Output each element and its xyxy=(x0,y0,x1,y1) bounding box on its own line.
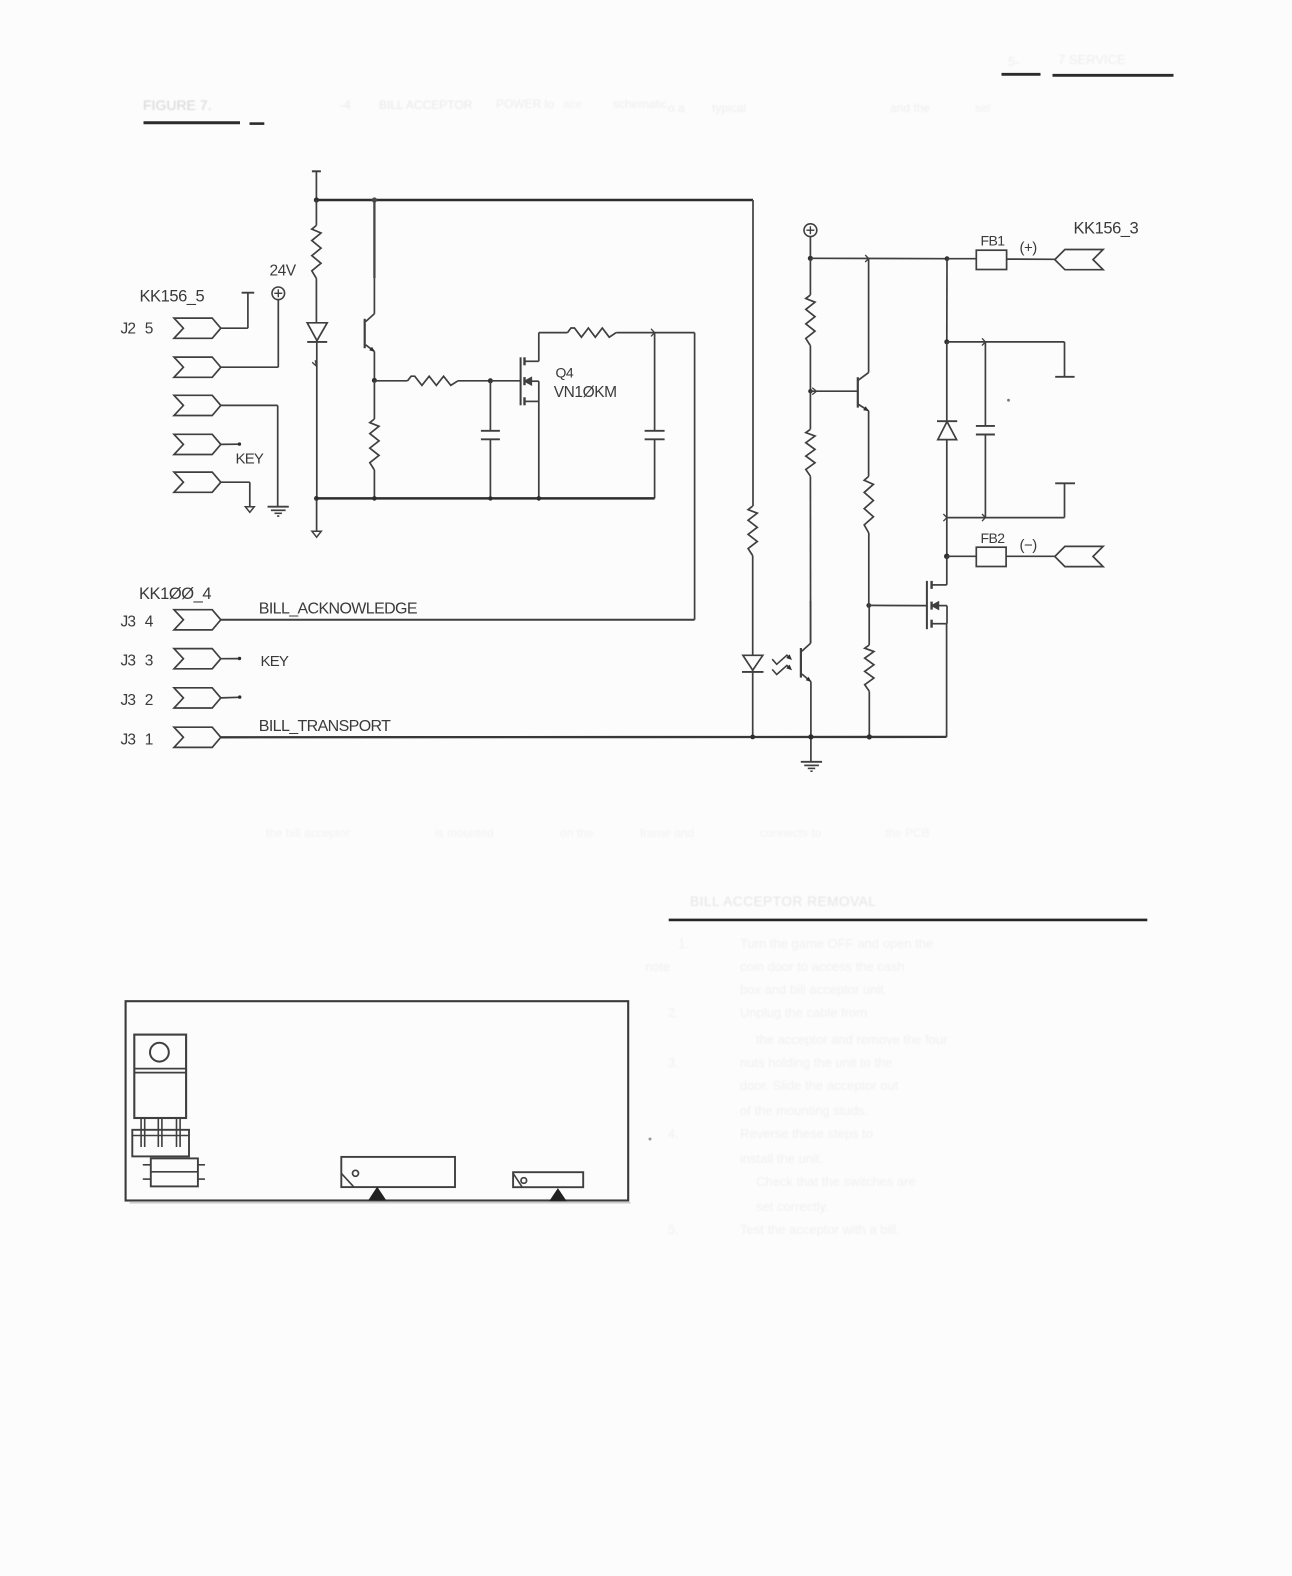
svg-text:ace: ace xyxy=(563,97,583,111)
svg-text:and the: and the xyxy=(890,101,930,115)
svg-text:J2: J2 xyxy=(121,321,136,338)
svg-text:J3: J3 xyxy=(121,731,136,748)
svg-text:KK156_5: KK156_5 xyxy=(140,288,205,306)
svg-text:Test the acceptor with a: Test the acceptor with a bill. xyxy=(740,1222,900,1237)
svg-text:J3: J3 xyxy=(121,653,136,670)
svg-text:install the unit.: install the unit. xyxy=(740,1151,823,1166)
svg-text:set correctly.: set correctly. xyxy=(756,1199,829,1214)
svg-text:5: 5 xyxy=(145,321,154,338)
svg-text:FIGURE 7.: FIGURE 7. xyxy=(143,97,211,113)
svg-text:1: 1 xyxy=(145,731,154,748)
svg-text:3.: 3. xyxy=(668,1055,679,1070)
svg-text:schematic: schematic xyxy=(613,97,667,111)
svg-text:on the: on the xyxy=(560,826,594,840)
svg-text:VN1ØKM: VN1ØKM xyxy=(554,384,617,401)
svg-text:KK1ØØ_4: KK1ØØ_4 xyxy=(139,585,211,603)
svg-text:1.: 1. xyxy=(678,936,689,951)
svg-text:coin door to access the c: coin door to access the cash xyxy=(740,959,905,974)
svg-text:24V: 24V xyxy=(270,263,297,280)
svg-text:BILL ACCEPTOR REMOVAL: BILL ACCEPTOR REMOVAL xyxy=(690,894,876,909)
svg-text:Turn the game OFF and ope: Turn the game OFF and open the xyxy=(740,936,933,951)
svg-text:door. Slide the acceptor o: door. Slide the acceptor out xyxy=(740,1078,899,1093)
svg-text:POWER lo: POWER lo xyxy=(496,97,554,111)
svg-text:is mounted: is mounted xyxy=(435,826,494,840)
svg-text:BILL_ACKNOWLEDGE: BILL_ACKNOWLEDGE xyxy=(259,601,417,618)
svg-text:FB2: FB2 xyxy=(981,530,1006,546)
svg-text:BILL ACCEPTOR: BILL ACCEPTOR xyxy=(379,98,473,112)
svg-text:box and bill acceptor unit: box and bill acceptor unit. xyxy=(740,982,887,997)
svg-text:Unplug the cable from: Unplug the cable from xyxy=(740,1005,867,1020)
svg-text:the acceptor and remove th: the acceptor and remove the four xyxy=(756,1032,948,1047)
svg-text:KK156_3: KK156_3 xyxy=(1074,219,1139,237)
svg-text:5-: 5- xyxy=(1008,54,1020,69)
svg-text:the bill acceptor: the bill acceptor xyxy=(266,826,350,840)
svg-text:4.: 4. xyxy=(668,1126,679,1141)
svg-text:2: 2 xyxy=(145,692,154,709)
svg-text:Reverse these steps to: Reverse these steps to xyxy=(740,1126,873,1141)
svg-text:KEY: KEY xyxy=(261,653,289,670)
svg-text:J3: J3 xyxy=(121,613,136,630)
svg-text:3: 3 xyxy=(145,653,154,670)
svg-text:2.: 2. xyxy=(668,1005,679,1020)
svg-text:note: note xyxy=(645,959,670,974)
svg-text:nuts holding the unit to: nuts holding the unit to the xyxy=(740,1055,893,1070)
svg-text:typical: typical xyxy=(712,101,746,115)
svg-text:4: 4 xyxy=(145,613,154,630)
svg-text:BILL_TRANSPORT: BILL_TRANSPORT xyxy=(259,718,391,735)
svg-text:5.: 5. xyxy=(668,1222,679,1237)
svg-text:FB1: FB1 xyxy=(981,233,1006,249)
svg-text:KEY: KEY xyxy=(236,450,264,467)
svg-text:-4: -4 xyxy=(340,98,351,112)
svg-text:J3: J3 xyxy=(121,692,136,709)
svg-text:(+): (+) xyxy=(1020,239,1038,256)
svg-text:Q4: Q4 xyxy=(556,365,574,381)
svg-text:the PCB: the PCB xyxy=(885,826,930,840)
svg-text:Check that the switches ar: Check that the switches are xyxy=(756,1174,916,1189)
svg-text:of the mounting studs.: of the mounting studs. xyxy=(740,1103,868,1118)
svg-text:(−): (−) xyxy=(1020,537,1038,554)
svg-text:frame and: frame and xyxy=(640,826,694,840)
svg-text:sel: sel xyxy=(975,101,990,115)
svg-text:7 SERVICE: 7 SERVICE xyxy=(1058,52,1126,67)
svg-text:connects to: connects to xyxy=(760,826,822,840)
svg-text:o a: o a xyxy=(668,101,685,115)
